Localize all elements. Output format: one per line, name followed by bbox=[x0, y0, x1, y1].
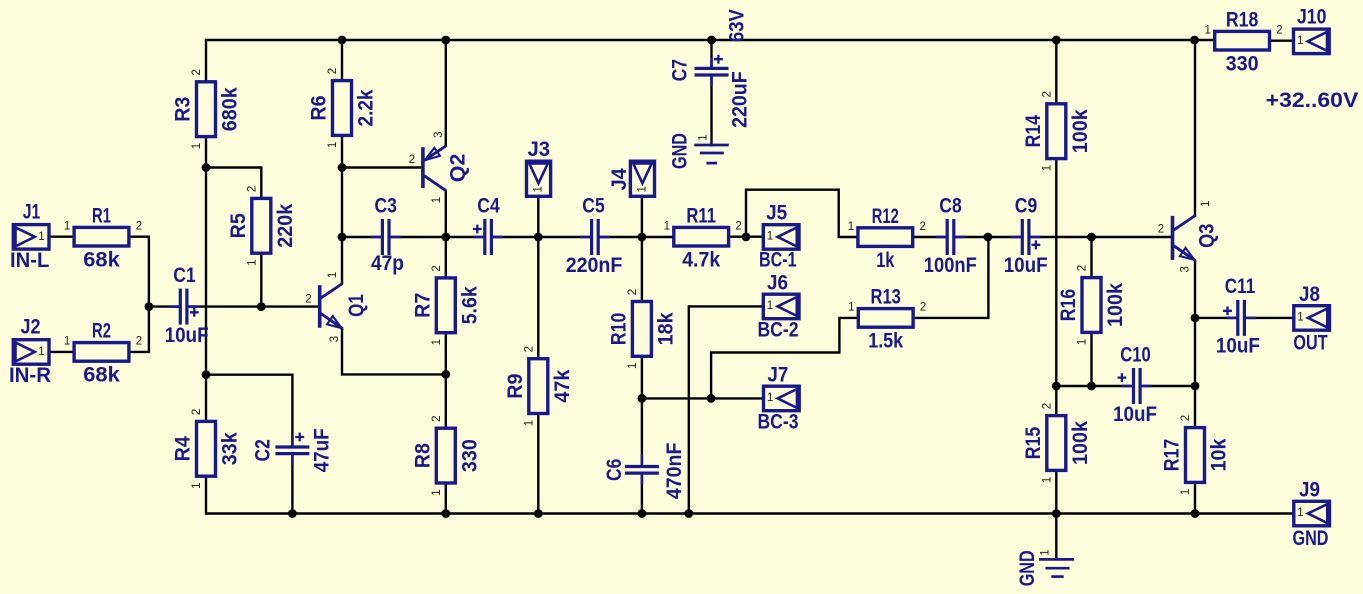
wire C7 to ground bbox=[710, 76, 712, 145]
svg-text:C3: C3 bbox=[375, 193, 398, 217]
wire C10 row right bbox=[1144, 385, 1195, 387]
svg-text:1: 1 bbox=[767, 300, 773, 312]
svg-text:C7: C7 bbox=[668, 59, 692, 81]
capacitor C7 bbox=[695, 55, 729, 85]
svg-text:100k: 100k bbox=[1068, 109, 1092, 153]
svg-text:220k: 220k bbox=[273, 204, 297, 248]
wire C6 to bottom rail bbox=[641, 473, 643, 513]
wire C4 to C5 bbox=[493, 236, 590, 238]
junction (446,514) bbox=[441, 509, 450, 518]
svg-text:1: 1 bbox=[627, 363, 639, 369]
resistor R4 bbox=[171, 409, 242, 489]
resistor R17 bbox=[1160, 415, 1231, 495]
junction (1195,318) bbox=[1191, 314, 1200, 323]
junction (342,40) bbox=[338, 36, 347, 45]
connector J2 bbox=[13, 340, 49, 365]
junction (342,237) bbox=[338, 233, 347, 242]
svg-text:2: 2 bbox=[1041, 91, 1053, 97]
resistor R9 bbox=[503, 346, 574, 426]
junction (206,168) bbox=[202, 163, 211, 172]
svg-text:4.7k: 4.7k bbox=[682, 248, 720, 272]
wire C11 to J8 bbox=[1246, 317, 1294, 319]
wire R6 column bbox=[341, 40, 343, 284]
svg-text:1: 1 bbox=[191, 143, 203, 149]
svg-text:R6: R6 bbox=[307, 95, 331, 120]
svg-text:J8: J8 bbox=[1299, 282, 1320, 306]
svg-text:1: 1 bbox=[38, 231, 44, 243]
wire C11 row left bbox=[1195, 317, 1236, 319]
svg-text:3: 3 bbox=[1179, 266, 1191, 272]
svg-text:C11: C11 bbox=[1225, 274, 1256, 298]
capacitor C3 bbox=[372, 219, 399, 255]
svg-text:1: 1 bbox=[848, 302, 854, 314]
svg-text:68k: 68k bbox=[83, 248, 120, 272]
svg-text:J10: J10 bbox=[1297, 5, 1326, 29]
wire R3-R5 branch bbox=[206, 168, 261, 307]
svg-text:1: 1 bbox=[1297, 35, 1303, 47]
resistor R11 bbox=[664, 203, 742, 271]
wire rail to R18 bbox=[1195, 39, 1215, 41]
svg-text:GND: GND bbox=[1015, 550, 1039, 586]
connector J4 bbox=[630, 161, 654, 196]
connector J3 bbox=[527, 161, 551, 196]
svg-text:+32..60V: +32..60V bbox=[1266, 88, 1359, 112]
svg-text:100nF: 100nF bbox=[924, 253, 977, 277]
svg-text:2.2k: 2.2k bbox=[354, 89, 378, 126]
wire C9 to Q3 base bbox=[1030, 236, 1172, 238]
resistor R18 bbox=[1204, 7, 1282, 75]
svg-text:1: 1 bbox=[64, 220, 70, 232]
svg-text:1: 1 bbox=[1200, 201, 1212, 207]
wire R12 to C8 bbox=[912, 236, 945, 238]
svg-text:1: 1 bbox=[431, 197, 443, 203]
junction (1092,237) bbox=[1087, 233, 1096, 242]
svg-text:10uF: 10uF bbox=[165, 323, 209, 347]
svg-text:1: 1 bbox=[1204, 24, 1210, 36]
junction (1195,386) bbox=[1191, 382, 1200, 391]
wire C2 to bottom rail bbox=[291, 454, 293, 513]
svg-text:J7: J7 bbox=[767, 362, 788, 386]
svg-text:330: 330 bbox=[1226, 52, 1259, 76]
svg-text:1: 1 bbox=[191, 482, 203, 488]
svg-text:2: 2 bbox=[735, 220, 741, 232]
wire C5 to R11 bbox=[600, 236, 674, 238]
connector J10 bbox=[1294, 29, 1330, 53]
wire Q1 emitter to R7/R8 node bbox=[342, 328, 446, 374]
capacitor C6 bbox=[625, 456, 659, 483]
svg-text:OUT: OUT bbox=[1293, 331, 1327, 355]
junction (446,374) bbox=[441, 370, 450, 379]
ground (C7) bbox=[667, 133, 728, 169]
svg-text:2: 2 bbox=[431, 265, 443, 271]
ground (bottom) bbox=[1015, 549, 1074, 586]
svg-text:47k: 47k bbox=[550, 369, 574, 402]
svg-text:2: 2 bbox=[136, 220, 142, 232]
junction (1092,386) bbox=[1087, 382, 1096, 391]
svg-text:IN-R: IN-R bbox=[9, 363, 51, 387]
wire R11 bridge to R12 bbox=[746, 190, 858, 237]
connector J5 bbox=[763, 225, 799, 250]
svg-text:C6: C6 bbox=[602, 458, 626, 481]
svg-text:C8: C8 bbox=[939, 193, 962, 217]
connector J7 bbox=[764, 386, 800, 411]
junction (446,40) bbox=[441, 36, 450, 45]
capacitor C1 bbox=[170, 289, 199, 325]
svg-text:R13: R13 bbox=[871, 285, 902, 309]
resistor R15 bbox=[1021, 403, 1092, 483]
svg-text:1: 1 bbox=[698, 134, 710, 140]
svg-text:470nF: 470nF bbox=[662, 443, 686, 500]
svg-text:R12: R12 bbox=[872, 204, 899, 228]
svg-text:R4: R4 bbox=[171, 436, 195, 461]
svg-text:2: 2 bbox=[1276, 24, 1282, 36]
svg-text:47p: 47p bbox=[371, 251, 404, 275]
resistor R2 bbox=[64, 319, 142, 387]
svg-text:2: 2 bbox=[305, 293, 311, 305]
resistor R6 bbox=[307, 68, 378, 148]
svg-text:1: 1 bbox=[848, 221, 854, 233]
capacitor C9 bbox=[1012, 219, 1040, 255]
wire J1 to R1 bbox=[49, 235, 74, 237]
svg-text:10uF: 10uF bbox=[1216, 334, 1260, 358]
svg-text:2: 2 bbox=[523, 346, 535, 352]
wire Q2 base row bbox=[342, 166, 422, 168]
junction (1195,514) bbox=[1191, 509, 1200, 518]
capacitor C8 bbox=[937, 219, 964, 255]
junction (711,398) bbox=[707, 394, 716, 403]
wire R13 left path bbox=[711, 318, 858, 399]
junction (712,40) bbox=[707, 36, 716, 45]
transistor Q1 bbox=[305, 272, 368, 343]
capacitor C4 bbox=[473, 219, 502, 255]
wire Q2 emitter stub bbox=[445, 40, 447, 146]
svg-text:10uF: 10uF bbox=[1004, 253, 1048, 277]
svg-text:2: 2 bbox=[136, 336, 142, 348]
junction (538,237) bbox=[534, 233, 543, 242]
junction (206,375) bbox=[202, 370, 211, 379]
svg-text:J3: J3 bbox=[528, 137, 551, 161]
svg-text:1: 1 bbox=[327, 142, 339, 148]
svg-text:47uF: 47uF bbox=[310, 428, 334, 472]
wire R13 to C8/C9 node bbox=[913, 237, 989, 318]
wire C1 to Q1 base bbox=[188, 305, 318, 307]
svg-text:2: 2 bbox=[1041, 403, 1053, 409]
svg-text:R8: R8 bbox=[410, 443, 434, 468]
svg-text:Q2: Q2 bbox=[446, 154, 470, 183]
svg-text:2: 2 bbox=[327, 68, 339, 74]
svg-text:C5: C5 bbox=[582, 193, 605, 217]
svg-text:3: 3 bbox=[433, 131, 445, 137]
svg-text:J5: J5 bbox=[766, 201, 787, 225]
svg-text:R16: R16 bbox=[1056, 289, 1080, 322]
svg-text:1: 1 bbox=[327, 272, 339, 278]
wire C3 row left bbox=[342, 236, 381, 238]
svg-text:R2: R2 bbox=[92, 319, 111, 343]
svg-text:1: 1 bbox=[1180, 489, 1192, 495]
svg-text:C1: C1 bbox=[173, 263, 196, 287]
junction (292,514) bbox=[288, 509, 297, 518]
svg-text:63V: 63V bbox=[724, 8, 748, 42]
svg-text:C4: C4 bbox=[477, 193, 500, 217]
svg-text:2: 2 bbox=[627, 289, 639, 295]
wire top rail / left column / bottom rail bbox=[206, 40, 1294, 514]
svg-text:J2: J2 bbox=[21, 315, 41, 339]
resistor R1 bbox=[64, 203, 142, 271]
svg-text:C10: C10 bbox=[1120, 343, 1150, 367]
svg-text:R18: R18 bbox=[1226, 7, 1259, 31]
wire J2 to R2 bbox=[49, 351, 74, 353]
resistor R10 bbox=[606, 289, 677, 369]
svg-text:R5: R5 bbox=[226, 213, 250, 238]
svg-text:Q1: Q1 bbox=[344, 294, 368, 317]
junction (746,237) bbox=[742, 233, 751, 242]
junction (1194,40) bbox=[1190, 36, 1199, 45]
capacitor C11 bbox=[1223, 300, 1255, 336]
junction (1056,40) bbox=[1052, 36, 1061, 45]
connector J8 bbox=[1294, 306, 1330, 331]
junction (642,237) bbox=[638, 233, 647, 242]
wire R1/R2 to C1 node bbox=[128, 237, 149, 352]
svg-text:2: 2 bbox=[920, 302, 926, 314]
wire J6 branch bbox=[689, 306, 764, 513]
junction (261,307) bbox=[257, 302, 266, 311]
junction (689,514) bbox=[684, 509, 693, 518]
wire C7 stub bbox=[710, 40, 712, 68]
wire Q3 collector stub bbox=[1194, 40, 1196, 216]
junction (1056,514) bbox=[1052, 509, 1061, 518]
svg-text:1: 1 bbox=[1039, 549, 1051, 555]
svg-text:1: 1 bbox=[431, 489, 443, 495]
svg-text:R14: R14 bbox=[1021, 115, 1045, 148]
svg-text:2: 2 bbox=[246, 186, 258, 192]
svg-text:1.5k: 1.5k bbox=[868, 329, 903, 353]
resistor R13 bbox=[848, 285, 926, 353]
junction (642,398) bbox=[638, 394, 647, 403]
wire J7 row bbox=[642, 397, 764, 399]
resistor R5 bbox=[226, 186, 297, 266]
junction (538,514) bbox=[534, 509, 543, 518]
svg-text:2: 2 bbox=[1180, 415, 1192, 421]
svg-text:2: 2 bbox=[1158, 223, 1164, 235]
svg-text:IN-L: IN-L bbox=[10, 248, 49, 272]
svg-text:2: 2 bbox=[1077, 265, 1089, 271]
svg-text:68k: 68k bbox=[83, 363, 120, 387]
svg-text:220uF: 220uF bbox=[728, 71, 752, 128]
junction (988,237) bbox=[984, 233, 993, 242]
svg-text:R3: R3 bbox=[171, 96, 195, 121]
wire C8 to C9 bbox=[955, 236, 1021, 238]
resistor R16 bbox=[1056, 265, 1127, 345]
resistor R14 bbox=[1021, 91, 1092, 171]
wire Q2 collector column bbox=[445, 191, 447, 514]
svg-text:220nF: 220nF bbox=[566, 253, 623, 277]
svg-text:2: 2 bbox=[431, 415, 443, 421]
svg-text:1: 1 bbox=[1297, 312, 1303, 324]
junction (342,168) bbox=[338, 163, 347, 172]
connector J6 bbox=[763, 294, 799, 319]
resistor R12 bbox=[848, 204, 926, 272]
svg-text:J1: J1 bbox=[23, 199, 41, 223]
capacitor C5 bbox=[581, 219, 608, 255]
junction (446,237) bbox=[441, 233, 450, 242]
svg-text:3: 3 bbox=[329, 336, 341, 342]
svg-text:5.6k: 5.6k bbox=[457, 286, 481, 324]
svg-text:1: 1 bbox=[431, 339, 443, 345]
capacitor C2 bbox=[275, 433, 309, 464]
svg-text:680k: 680k bbox=[218, 87, 242, 131]
svg-text:1: 1 bbox=[64, 336, 70, 348]
wire C10 row left bbox=[1056, 385, 1129, 387]
svg-text:R17: R17 bbox=[1160, 439, 1184, 471]
capacitor C10 bbox=[1118, 368, 1151, 404]
wire C3 to C4 bbox=[391, 236, 484, 238]
svg-text:1: 1 bbox=[523, 420, 535, 426]
svg-text:1: 1 bbox=[1041, 477, 1053, 483]
svg-text:1: 1 bbox=[38, 346, 44, 358]
svg-text:BC-2: BC-2 bbox=[758, 318, 799, 342]
svg-text:BC-1: BC-1 bbox=[759, 248, 797, 272]
svg-text:R15: R15 bbox=[1021, 427, 1045, 460]
wire J4/R10 column upper bbox=[641, 196, 643, 466]
resistor R3 bbox=[171, 69, 242, 149]
transistor Q2 bbox=[409, 131, 470, 203]
svg-text:1: 1 bbox=[664, 220, 670, 232]
svg-text:10k: 10k bbox=[1207, 438, 1231, 471]
wire Q3 emitter column bbox=[1194, 260, 1196, 513]
svg-text:R11: R11 bbox=[686, 203, 716, 227]
svg-text:J4: J4 bbox=[607, 168, 631, 190]
svg-text:1: 1 bbox=[1297, 507, 1303, 519]
wire R16 column bbox=[1090, 237, 1092, 386]
wire node to C1 bbox=[149, 305, 179, 307]
svg-text:C2: C2 bbox=[251, 439, 275, 461]
wire R11 to J5 bbox=[731, 235, 764, 237]
svg-text:1: 1 bbox=[1041, 165, 1053, 171]
wire R18 to J10 bbox=[1269, 40, 1294, 42]
svg-text:2: 2 bbox=[919, 221, 925, 233]
svg-text:33k: 33k bbox=[218, 432, 242, 465]
svg-text:R7: R7 bbox=[410, 293, 434, 318]
svg-text:1: 1 bbox=[532, 186, 544, 192]
svg-text:1: 1 bbox=[1077, 339, 1089, 345]
svg-text:10uF: 10uF bbox=[1113, 402, 1157, 426]
junction (1056,386) bbox=[1052, 382, 1061, 391]
svg-text:R10: R10 bbox=[606, 313, 630, 345]
resistor R8 bbox=[410, 415, 481, 495]
svg-text:BC-3: BC-3 bbox=[758, 410, 799, 434]
svg-text:2: 2 bbox=[409, 154, 415, 166]
resistor R7 bbox=[410, 265, 481, 345]
junction (149,307) bbox=[145, 302, 154, 311]
junction (642,514) bbox=[638, 509, 647, 518]
svg-text:J6: J6 bbox=[767, 271, 788, 295]
svg-text:1k: 1k bbox=[876, 248, 894, 272]
svg-text:GND: GND bbox=[1293, 526, 1329, 550]
transistor Q3 bbox=[1158, 201, 1219, 273]
svg-text:100k: 100k bbox=[1103, 283, 1127, 327]
wire R14/R15 column bbox=[1055, 40, 1057, 559]
svg-text:1: 1 bbox=[636, 186, 648, 192]
svg-text:Q3: Q3 bbox=[1195, 223, 1219, 247]
svg-text:18k: 18k bbox=[653, 312, 677, 345]
svg-text:2: 2 bbox=[191, 409, 203, 415]
svg-text:1: 1 bbox=[246, 259, 258, 265]
svg-text:330: 330 bbox=[457, 439, 481, 472]
svg-text:R9: R9 bbox=[503, 373, 527, 398]
svg-text:J9: J9 bbox=[1299, 477, 1320, 501]
svg-text:1: 1 bbox=[767, 231, 773, 243]
wire C2 branch bbox=[206, 375, 292, 447]
svg-text:R1: R1 bbox=[92, 203, 111, 227]
svg-text:1: 1 bbox=[767, 392, 773, 404]
svg-text:C9: C9 bbox=[1015, 193, 1038, 217]
wire J3 column bbox=[537, 196, 539, 513]
svg-text:100k: 100k bbox=[1068, 421, 1092, 465]
svg-text:2: 2 bbox=[191, 69, 203, 75]
connector J9 bbox=[1294, 501, 1330, 526]
svg-text:GND: GND bbox=[667, 133, 691, 169]
connector J1 bbox=[13, 225, 49, 250]
